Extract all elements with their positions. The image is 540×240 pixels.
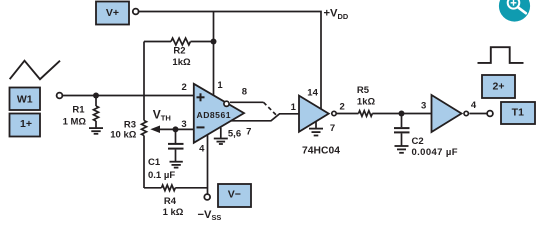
capacitor C1 [148,129,184,181]
node R2 right junction [211,39,217,45]
capacitor C2 [394,114,458,159]
op-amp U1 AD8561 [194,84,244,143]
node R1 junction [93,93,99,99]
svg-text:5,6: 5,6 [228,129,241,140]
svg-text:2: 2 [182,82,187,93]
inverter U2B 74HC04 [432,95,469,132]
svg-text:10 kΩ: 10 kΩ [110,130,136,141]
svg-text:7: 7 [330,123,335,134]
svg-text:+VDD: +VDD [324,8,349,21]
svg-text:4: 4 [199,144,205,155]
svg-text:T1: T1 [512,106,524,118]
svg-text:C2: C2 [412,136,424,147]
wire W1 to pin2 [63,95,195,97]
wire feedback left branch [143,42,145,121]
T1 box [501,102,535,124]
svg-text:0.1 µF: 0.1 µF [148,170,175,181]
magnifier zoom icon [499,0,530,22]
node VTH junction [173,126,179,132]
svg-text:R4: R4 [164,196,177,207]
W1 terminal [57,93,63,99]
svg-text:V+: V+ [106,7,119,19]
V- box [218,184,251,207]
R3 wiper arrow [150,126,160,134]
svg-text:7: 7 [246,126,251,137]
svg-text:8: 8 [242,87,247,98]
svg-text:3: 3 [181,119,186,130]
svg-text:1: 1 [217,80,223,91]
svg-text:R2: R2 [173,46,185,57]
node C2 junction [399,111,405,117]
ground (C1) [170,162,183,168]
square wave symbol [478,47,524,63]
1+ box [10,114,41,137]
svg-text:1: 1 [291,102,297,113]
T1 terminal [487,111,493,117]
V- terminal [204,194,210,200]
wire R3 to R4 [143,136,145,189]
wire pin 4 to V- [207,135,209,194]
wire upper output [230,101,264,103]
wire pin1 supply [213,12,215,96]
svg-text:14: 14 [307,87,318,98]
2+ box [482,75,515,98]
triangle wave symbol [10,61,60,79]
svg-text:1 MΩ: 1 MΩ [63,117,87,128]
svg-text:3: 3 [421,101,426,112]
W1 box [10,88,41,111]
svg-text:V−: V− [228,189,241,201]
resistor R3 (rheostat) [110,119,146,140]
resistor R1 [63,96,99,129]
resistor R4 [144,185,208,218]
wire pin3 [160,128,195,130]
svg-text:R5: R5 [357,85,370,96]
V+ terminal [133,9,139,15]
wire top rail [139,12,321,110]
svg-text:1 kΩ: 1 kΩ [163,207,184,218]
ground (C2) [395,146,409,153]
resistor R5 [336,85,431,116]
svg-text:−VSS: −VSS [198,209,222,222]
svg-text:1+: 1+ [20,118,32,130]
output bubble Q-bar [224,101,229,106]
V+ box [96,2,129,25]
svg-text:4: 4 [471,100,477,111]
svg-text:W1: W1 [17,94,33,106]
svg-text:AD8561: AD8561 [197,110,231,120]
wire lower output [231,114,299,121]
wire inv2 output [470,113,487,115]
svg-text:74HC04: 74HC04 [302,145,340,156]
svg-text:0.0047 µF: 0.0047 µF [412,147,458,158]
svg-text:1kΩ: 1kΩ [357,97,376,108]
svg-text:C1: C1 [148,157,161,168]
resistor R2 [144,38,214,68]
svg-text:1kΩ: 1kΩ [172,57,191,68]
inverter U2A 74HC04 [299,96,336,132]
svg-text:R1: R1 [72,104,85,115]
wire dashed alternative [264,102,277,115]
ground (74HC04 pin 7) [309,121,323,135]
svg-text:2: 2 [340,102,345,113]
svg-text:VTH: VTH [153,107,171,122]
ground (R1) [89,128,103,134]
svg-text:2+: 2+ [493,80,505,92]
ground (AD8561 pins 5,6) [214,128,228,144]
